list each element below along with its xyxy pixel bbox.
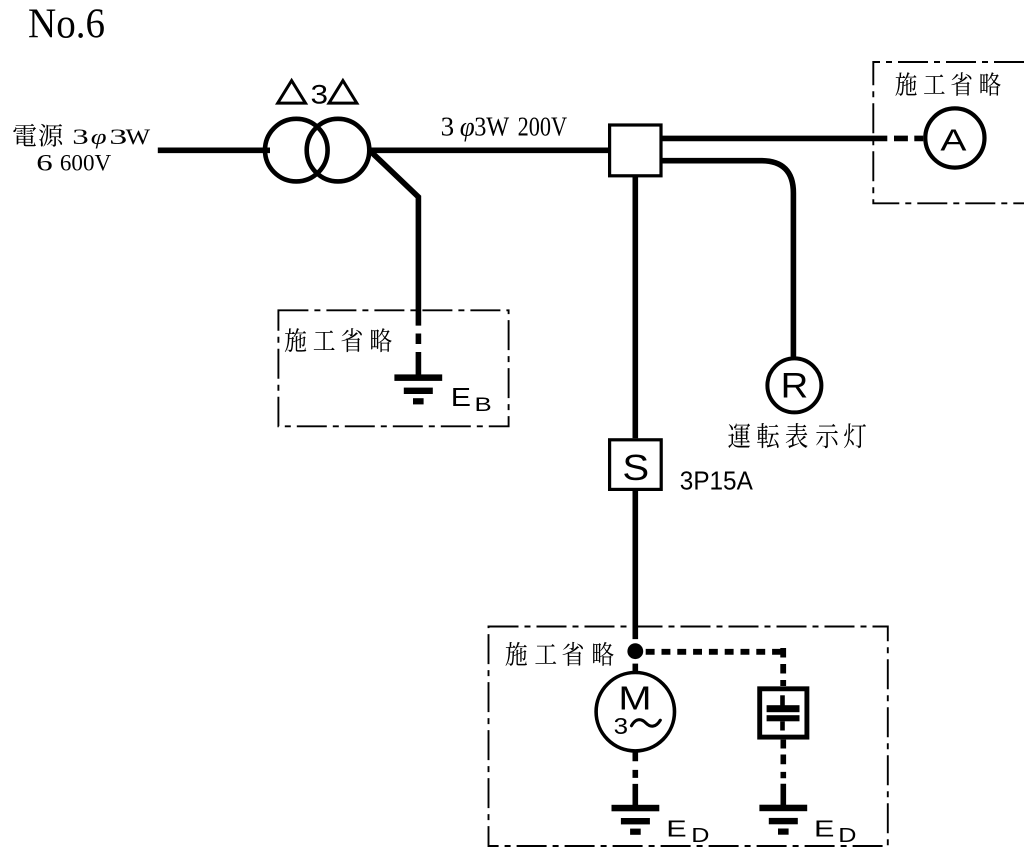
svg-text:3W: 3W bbox=[474, 111, 509, 141]
svg-text:W: W bbox=[126, 126, 151, 150]
svg-text:No.6: No.6 bbox=[28, 1, 105, 48]
svg-text:φ: φ bbox=[460, 111, 475, 141]
svg-text:3: 3 bbox=[311, 80, 329, 110]
svg-text:E: E bbox=[814, 816, 834, 841]
svg-text:600V: 600V bbox=[60, 150, 112, 175]
svg-text:3: 3 bbox=[72, 125, 88, 149]
svg-text:M: M bbox=[618, 680, 651, 717]
svg-text:B: B bbox=[475, 393, 492, 415]
svg-text:3P15A: 3P15A bbox=[680, 466, 754, 496]
svg-text:A: A bbox=[940, 124, 967, 158]
svg-text:3: 3 bbox=[441, 111, 455, 141]
svg-text:3: 3 bbox=[614, 714, 628, 739]
svg-text:φ: φ bbox=[91, 124, 107, 149]
svg-text:E: E bbox=[666, 816, 686, 841]
svg-text:3: 3 bbox=[109, 125, 127, 149]
svg-text:R: R bbox=[781, 366, 809, 405]
svg-text:E: E bbox=[451, 383, 471, 411]
svg-text:D: D bbox=[838, 824, 856, 847]
svg-text:200V: 200V bbox=[518, 111, 568, 141]
svg-text:S: S bbox=[622, 448, 649, 489]
svg-text:6: 6 bbox=[36, 151, 52, 176]
svg-text:D: D bbox=[691, 824, 709, 847]
